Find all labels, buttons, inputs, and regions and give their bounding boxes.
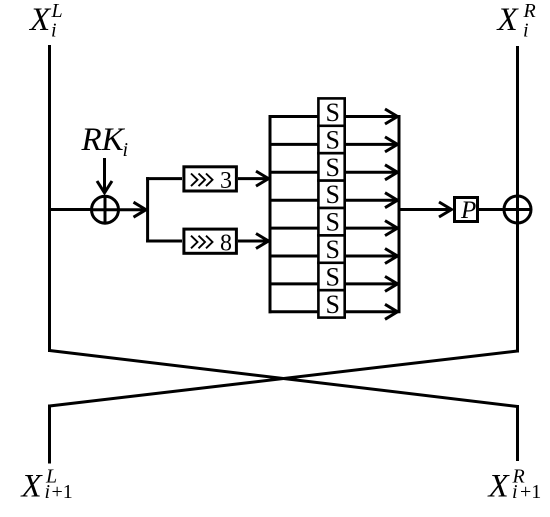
svg-text:S: S <box>326 153 340 182</box>
label X_i^R <box>496 0 536 42</box>
wire branch vertical <box>146 177 149 242</box>
wire rail to S7 <box>269 282 319 285</box>
svg-text:3: 3 <box>220 168 232 194</box>
label RK_i <box>81 122 129 161</box>
arrow S8 to right rail <box>346 304 398 319</box>
sbox S2 <box>318 125 344 154</box>
wire rail to S8 <box>269 310 319 313</box>
wire main horizontal into XOR A1 <box>48 208 91 211</box>
svg-text:i: i <box>523 20 529 42</box>
svg-text:i: i <box>51 20 57 42</box>
arrow S6 to right rail <box>346 249 398 264</box>
rotate box ROT3 (>>> 3) <box>184 167 237 194</box>
wire S-column right rail <box>398 115 401 313</box>
permutation box P <box>455 197 478 224</box>
sbox S5 <box>318 208 344 237</box>
wire bottom left output vertical <box>48 405 51 464</box>
xor A2 (output addition) <box>504 196 531 223</box>
arrow S7 to right rail <box>346 276 398 291</box>
arrow XOR A1 to branch node <box>119 202 147 217</box>
wire rail to S2 <box>269 143 319 146</box>
svg-text:S: S <box>326 125 340 154</box>
svg-text:X: X <box>20 469 44 505</box>
arrow S4 to right rail <box>346 193 398 208</box>
sbox S6 <box>318 235 344 264</box>
wire rail to S4 <box>269 199 319 202</box>
svg-text:i: i <box>512 481 518 503</box>
svg-text:S: S <box>326 180 340 209</box>
wire right input vertical upper <box>516 46 519 196</box>
sbox S1 <box>318 98 344 127</box>
svg-text:S: S <box>326 235 340 264</box>
wire S-column left rail <box>269 115 272 313</box>
wire branch to ROT8 <box>146 240 182 243</box>
wire crossing diagonal left-to-right <box>50 351 518 407</box>
xor A1 (key addition) <box>92 196 119 223</box>
arrow RK_i down into XOR A1 <box>97 158 112 193</box>
label X_i^L <box>28 0 63 42</box>
wire bottom right output vertical <box>516 405 519 461</box>
arrow S2 to right rail <box>346 137 398 152</box>
svg-text:i: i <box>45 481 51 503</box>
sbox S8 <box>318 290 344 319</box>
wire rail to S5 <box>269 227 319 230</box>
wire branch to ROT3 <box>146 177 182 180</box>
svg-text:S: S <box>326 290 340 319</box>
arrow ROT3 to S-column left rail <box>238 171 269 186</box>
wire rail to S6 <box>269 255 319 258</box>
arrow S3 to right rail <box>346 165 398 180</box>
svg-text:S: S <box>326 262 340 291</box>
arrow S5 to right rail <box>346 221 398 236</box>
label X_{i+1}^R <box>487 466 542 505</box>
sbox S7 <box>318 262 344 291</box>
arrow ROT8 to S-column left rail <box>238 234 269 249</box>
wire right vertical lower <box>516 223 519 353</box>
wire rail to S1 <box>269 115 319 118</box>
svg-text:i: i <box>123 139 129 161</box>
wire P to XOR A2 <box>479 208 504 211</box>
svg-text:RK: RK <box>81 122 126 158</box>
arrow right rail to P box <box>399 202 452 217</box>
rotate box ROT8 (>>> 8) <box>184 229 237 256</box>
svg-text:X: X <box>28 2 52 38</box>
svg-text:S: S <box>326 98 340 127</box>
svg-text:X: X <box>496 2 520 38</box>
svg-text:+1: +1 <box>52 481 73 503</box>
arrow S1 to right rail <box>346 109 398 124</box>
sbox S4 <box>318 180 344 209</box>
svg-text:P: P <box>460 197 476 224</box>
sbox S3 <box>318 153 344 182</box>
label X_{i+1}^L <box>20 466 73 505</box>
svg-text:S: S <box>326 208 340 237</box>
wire rail to S3 <box>269 171 319 174</box>
svg-text:+1: +1 <box>520 481 541 503</box>
svg-text:X: X <box>487 469 511 505</box>
wire left input vertical <box>48 45 51 352</box>
wire crossing diagonal right-to-left <box>50 351 518 406</box>
svg-text:8: 8 <box>220 230 232 256</box>
